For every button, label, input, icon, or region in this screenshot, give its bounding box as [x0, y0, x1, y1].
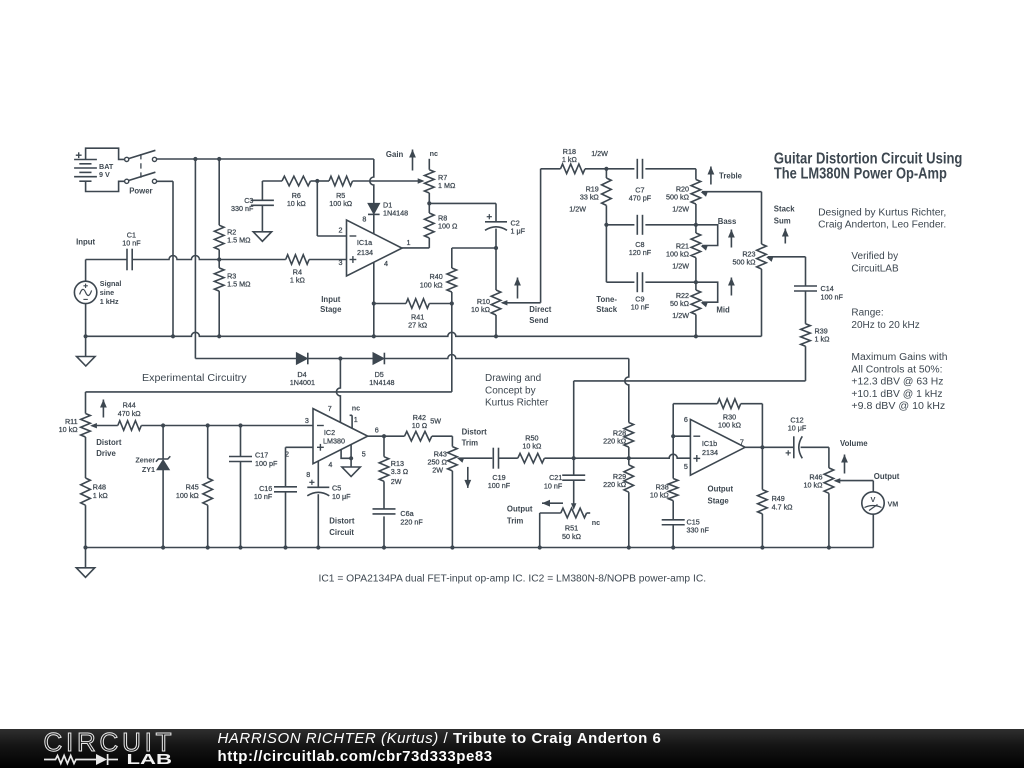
title Guitar Distortion Circuit Using The LM380N Power Op-Amp [774, 151, 963, 183]
svg-text:Input: Input [76, 238, 95, 247]
capacitor C3 330 nF [231, 181, 274, 232]
annotation Maximum Gains [851, 352, 947, 412]
svg-text:+10.1 dBV @ 1 kHz: +10.1 dBV @ 1 kHz [851, 389, 942, 400]
wire R39 bottom to output trim branch [574, 381, 806, 458]
wire C9 left branch [606, 225, 634, 282]
node C17 junction [238, 423, 242, 427]
svg-text:100 nF: 100 nF [821, 292, 844, 301]
capacitor C19 100 nF [488, 448, 518, 490]
potentiometer R11 10 kOhm Distort Drive [59, 414, 118, 479]
capacitor C16 10 nF on IC2 pin2 [254, 447, 313, 547]
svg-text:Range:: Range: [851, 308, 883, 319]
svg-text:500 kΩ: 500 kΩ [733, 257, 757, 266]
annotation Designed by [818, 207, 946, 230]
svg-text:Send: Send [529, 316, 548, 325]
resistor R19 33 kOhm 1/2W [569, 169, 611, 225]
svg-text:4: 4 [384, 259, 388, 268]
capacitor C2 1 uF polarized [485, 214, 526, 248]
capacitor C21 10 nF [544, 458, 585, 505]
capacitor C6a 220 nF [373, 509, 424, 548]
svg-text:7: 7 [740, 438, 744, 447]
svg-text:Output: Output [874, 472, 900, 481]
node C8 right junction [694, 223, 698, 227]
svg-text:50 kΩ: 50 kΩ [562, 532, 582, 541]
svg-text:1 kΩ: 1 kΩ [815, 335, 831, 344]
potentiometer R20 500 kOhm 1/2W Treble [666, 169, 761, 225]
svg-text:1N4148: 1N4148 [369, 378, 394, 387]
potentiometer R7 1 MOhm (nc top) [425, 149, 456, 203]
zener diode ZY1 [135, 426, 170, 548]
svg-text:4.7 kΩ: 4.7 kΩ [772, 502, 794, 511]
node R6/R5 junction [315, 179, 319, 183]
svg-text:Distort: Distort [462, 428, 488, 437]
resistor R29 220 kOhm [603, 458, 633, 547]
wire IC1b output pin 7 [745, 445, 794, 449]
svg-text:Gain: Gain [386, 150, 404, 159]
svg-text:100 kΩ: 100 kΩ [718, 420, 742, 429]
svg-text:8: 8 [362, 214, 366, 223]
svg-text:100 Ω: 100 Ω [438, 221, 458, 230]
svg-text:220 kΩ: 220 kΩ [603, 436, 627, 445]
wire distort drive top [86, 392, 452, 414]
svg-text:Maximum Gains with: Maximum Gains with [851, 352, 947, 363]
wire feedback to lower section [451, 304, 453, 392]
capacitor C17 100 pF [229, 426, 278, 548]
annotation Verified by CircuitLAB [851, 251, 899, 274]
node R40/R41 junction [450, 301, 454, 305]
resistor R40 100 kOhm [420, 268, 457, 304]
svg-text:sine: sine [100, 288, 114, 297]
wire D5 rail down to R28 (hop) [625, 359, 629, 423]
svg-text:Drawing and: Drawing and [485, 373, 541, 384]
svg-text:V: V [871, 495, 876, 504]
ground below C3 [253, 232, 271, 242]
svg-text:Verified by: Verified by [851, 251, 898, 262]
svg-text:1/2W: 1/2W [672, 311, 689, 320]
svg-text:VM: VM [888, 499, 899, 508]
wire inverting input IC1a pin 2 [317, 181, 346, 236]
svg-text:All Controls at 50%:: All Controls at 50%: [851, 364, 942, 375]
node R28/R29 junction [627, 456, 631, 460]
svg-text:Concept by: Concept by [485, 385, 536, 396]
resistor R45 100 kOhm [176, 426, 213, 548]
label Distort Circuit [329, 517, 355, 537]
switch SW Power (DPDT) [125, 150, 157, 195]
resistor R50 10 kOhm [518, 433, 691, 463]
annotation Drawing and Concept [485, 373, 549, 409]
wire IC1a output pin1 [402, 247, 429, 249]
svg-text:5W: 5W [430, 416, 441, 425]
node C2 bottom junction [494, 246, 498, 250]
wire direct send up to R18 [541, 169, 561, 303]
svg-text:Stack: Stack [774, 205, 795, 214]
label Experimental Circuitry [142, 373, 247, 384]
resistor R4 1 kOhm [286, 255, 347, 285]
wire IC1a pin4 to ground rail [372, 262, 376, 338]
svg-text:10 kΩ: 10 kΩ [59, 425, 79, 434]
svg-text:100 pF: 100 pF [255, 459, 278, 468]
wire R7/R8 junction to C2 [429, 203, 496, 221]
wire experimental rail left [195, 358, 296, 360]
svg-text:1 kΩ: 1 kΩ [290, 275, 306, 284]
ground symbol bottom rail [76, 548, 94, 578]
capacitor C1 10 nF [122, 231, 141, 271]
svg-text:5: 5 [684, 462, 688, 471]
svg-text:LM380: LM380 [323, 437, 345, 446]
wire C2 junction to R40 [452, 248, 496, 268]
diode D4 1N4001 [290, 353, 341, 387]
annotation IC note [319, 574, 707, 585]
resistor R5 100 kOhm [317, 176, 352, 208]
svg-text:470 kΩ: 470 kΩ [118, 409, 142, 418]
svg-text:Tone-: Tone- [596, 295, 617, 304]
resistor R8 100 Ohm [425, 203, 458, 248]
resistor R18 1 kOhm 1/2W [561, 147, 609, 173]
svg-text:Bass: Bass [718, 217, 737, 226]
svg-text:10 μF: 10 μF [332, 492, 351, 501]
wire IC2 pin7 supply [336, 359, 340, 423]
svg-text:100 kΩ: 100 kΩ [329, 199, 353, 208]
wire switched +9V down to experimental circuitry [194, 159, 196, 359]
wire input to C1 [86, 259, 127, 261]
wire bottom ground rail [86, 547, 874, 549]
wire IC2 ground pins [341, 445, 353, 468]
svg-text:1 MΩ: 1 MΩ [438, 181, 456, 190]
svg-text:Distort: Distort [329, 517, 355, 526]
resistor R49 4.7 kOhm [758, 447, 794, 547]
voltmeter VM [862, 481, 898, 548]
svg-text:100 kΩ: 100 kΩ [420, 280, 444, 289]
annotation Range [851, 308, 919, 331]
svg-text:Signal: Signal [100, 279, 122, 288]
capacitor C9 10 nF [631, 272, 696, 311]
svg-text:7: 7 [328, 404, 332, 413]
node R22 bottom on rail [694, 334, 698, 338]
node Input [76, 238, 95, 247]
node R18/R19/C7 junction [604, 167, 608, 171]
svg-text:Craig Anderton, Leo Fender.: Craig Anderton, Leo Fender. [818, 220, 946, 231]
wire C2 to R10 [495, 248, 497, 290]
svg-text:Designed by Kurtus Richter,: Designed by Kurtus Richter, [818, 207, 946, 218]
svg-text:10 kΩ: 10 kΩ [522, 441, 542, 450]
svg-text:1 kΩ: 1 kΩ [93, 491, 109, 500]
label Treble with up arrow [708, 167, 743, 185]
svg-text:1 μF: 1 μF [511, 227, 526, 236]
diode D1 1N4148 [368, 200, 408, 234]
svg-text:Treble: Treble [719, 172, 743, 181]
node C9 right junction [694, 280, 698, 284]
potentiometer R21 100 kOhm 1/2W Bass [666, 225, 718, 282]
svg-text:Output: Output [507, 505, 533, 514]
svg-text:2: 2 [285, 449, 289, 458]
svg-text:1 kHz: 1 kHz [100, 297, 119, 306]
diode D5 1N4148 [340, 353, 394, 387]
svg-text:Stack: Stack [596, 305, 617, 314]
resistor R42 10 Ohm 5W [405, 413, 453, 441]
label Distort Trim with down arrow [462, 428, 488, 488]
svg-text:220 nF: 220 nF [400, 517, 423, 526]
svg-text:Power: Power [129, 187, 152, 196]
svg-text:1N4001: 1N4001 [290, 378, 315, 387]
node R2/R3 junction [217, 257, 221, 261]
svg-text:330 nF: 330 nF [687, 526, 710, 535]
svg-text:nc: nc [430, 149, 438, 158]
svg-text:27 kΩ: 27 kΩ [408, 321, 428, 330]
svg-text:3: 3 [305, 416, 309, 425]
resistor R41 27 kOhm [374, 299, 452, 330]
svg-text:100 kΩ: 100 kΩ [666, 249, 690, 258]
svg-text:10 kΩ: 10 kΩ [650, 490, 670, 499]
svg-text:ZY1: ZY1 [142, 465, 155, 474]
svg-text:33 kΩ: 33 kΩ [580, 193, 600, 202]
capacitor C14 100 nF [794, 257, 843, 324]
potentiometer R22 50 kOhm 1/2W Mid [670, 282, 718, 336]
svg-text:Trim: Trim [462, 439, 479, 448]
svg-text:220 kΩ: 220 kΩ [603, 480, 627, 489]
svg-text:1.5 MΩ: 1.5 MΩ [227, 279, 251, 288]
svg-text:2W: 2W [432, 465, 443, 474]
resistor R3 1.5 MOhm [214, 260, 251, 337]
svg-text:Trim: Trim [507, 517, 524, 526]
svg-text:Input: Input [321, 295, 340, 304]
svg-text:1.5 MΩ: 1.5 MΩ [227, 235, 251, 244]
capacitor C5 10 uF on IC2 pin8 [307, 461, 351, 547]
resistor R30 100 kOhm feedback [673, 399, 762, 447]
label Output Trim with left arrow [507, 500, 563, 526]
ground below IC2 [342, 467, 360, 477]
wire C1 to R4 (hops) [132, 256, 286, 260]
wire +9V top rail [157, 158, 374, 160]
CircuitLab logo [30, 729, 220, 768]
resistor R48 1 kOhm [81, 478, 109, 548]
node bottom rail junctions [83, 545, 831, 549]
capacitor C12 10 uF polarized [786, 415, 829, 458]
resistor R6 10 kOhm [262, 176, 317, 208]
svg-text:5: 5 [362, 449, 366, 458]
svg-text:120 nF: 120 nF [629, 248, 652, 257]
svg-text:+9.8 dBV @ 10 kHz: +9.8 dBV @ 10 kHz [851, 401, 945, 412]
node IC1b pin6 junction [671, 434, 675, 438]
op-amp IC1b 2134 [684, 415, 745, 475]
svg-text:Direct: Direct [529, 305, 552, 314]
svg-text:10 Ω: 10 Ω [412, 421, 428, 430]
label Gain with up arrow [386, 150, 416, 171]
node R10 bottom on rail [494, 334, 498, 338]
svg-text:470 pF: 470 pF [629, 193, 652, 202]
svg-text:nc: nc [592, 518, 600, 527]
wire lower switch throw [157, 180, 173, 182]
svg-text:nc: nc [352, 403, 360, 412]
node R45 junction [206, 423, 210, 427]
wire +9V to D1 (hop over wiper wire) [370, 159, 374, 203]
svg-text:10 nF: 10 nF [122, 239, 141, 248]
svg-text:100 kΩ: 100 kΩ [176, 491, 200, 500]
logo resistor-diode glyph [44, 754, 118, 765]
svg-text:IC1b: IC1b [702, 439, 717, 448]
svg-text:Experimental Circuitry: Experimental Circuitry [142, 373, 247, 384]
op-amp IC1a 2134 [339, 214, 411, 276]
svg-text:1 kΩ: 1 kΩ [562, 155, 578, 164]
svg-text:10 nF: 10 nF [544, 481, 563, 490]
svg-text:2134: 2134 [357, 248, 373, 257]
wire IC2 output pin 6 [368, 434, 405, 438]
node R7/R8 junction [427, 201, 431, 205]
label Tone-Stack [596, 295, 617, 314]
capacitor C15 330 nF [662, 517, 710, 547]
svg-text:The LM380N Power Op-Amp: The LM380N Power Op-Amp [774, 166, 947, 183]
label Direct Send with up arrow [514, 278, 552, 325]
resistor R13 3.3 Ohm 2W [379, 436, 409, 509]
svg-text:Stage: Stage [708, 497, 730, 506]
svg-text:Drive: Drive [96, 449, 116, 458]
svg-text:10 μF: 10 μF [788, 424, 807, 433]
svg-text:10 kΩ: 10 kΩ [804, 481, 824, 490]
svg-text:Kurtus Richter: Kurtus Richter [485, 398, 549, 409]
svg-text:100 nF: 100 nF [488, 481, 511, 490]
svg-text:Zener: Zener [135, 456, 155, 465]
svg-text:1/2W: 1/2W [672, 204, 689, 213]
capacitor C8 120 nF [606, 215, 696, 257]
svg-text:9 V: 9 V [99, 170, 110, 179]
resistor R39 1 kOhm [801, 324, 830, 381]
ground symbol mid rail [77, 336, 95, 366]
node D4/D5 junction [338, 356, 342, 360]
svg-text:Output: Output [708, 485, 734, 494]
svg-text:2134: 2134 [702, 448, 718, 457]
node C8 left junction [604, 223, 608, 227]
label Input Stage [320, 295, 342, 314]
wire ground rail (mid) [86, 332, 762, 336]
node zener junction [161, 423, 165, 427]
svg-text:IC1 = OPA2134PA dual FET-input: IC1 = OPA2134PA dual FET-input op-amp IC… [319, 574, 707, 585]
battery BAT 9V [74, 148, 125, 191]
resistor R2 1.5 MOhm [214, 159, 251, 260]
svg-text:3.3 Ω: 3.3 Ω [391, 467, 409, 476]
svg-text:1N4148: 1N4148 [383, 209, 408, 218]
potentiometer R51 50 kOhm Output Trim [540, 503, 600, 547]
svg-text:1/2W: 1/2W [591, 149, 608, 158]
node junction top rail [193, 157, 221, 161]
resistor R28 220 kOhm [603, 423, 633, 459]
wire D5 to R28 (hop over feedback wire) [384, 355, 628, 359]
node output trim top junction [572, 456, 576, 460]
svg-text:+12.3 dBV @ 63 Hz: +12.3 dBV @ 63 Hz [851, 377, 943, 388]
svg-text:Circuit: Circuit [329, 528, 354, 537]
svg-text:Mid: Mid [716, 306, 730, 315]
label Distort Drive with up arrow [96, 400, 122, 459]
wire battery return vertical [172, 181, 174, 336]
svg-text:IC1a: IC1a [357, 238, 372, 247]
capacitor C7 470 pF [606, 159, 696, 203]
svg-text:6: 6 [684, 415, 688, 424]
svg-text:10 kΩ: 10 kΩ [471, 305, 491, 314]
svg-text:CircuitLAB: CircuitLAB [851, 263, 899, 274]
resistor R38 10 kOhm [650, 436, 678, 520]
potentiometer R46 10 kOhm Volume [804, 447, 874, 547]
svg-text:10 nF: 10 nF [254, 492, 273, 501]
wire IC1b pin 6 [673, 404, 690, 437]
svg-text:1/2W: 1/2W [672, 261, 689, 270]
label Stack Sum with up arrow [774, 205, 795, 244]
label Mid with up arrow [716, 278, 734, 315]
svg-text:1: 1 [407, 238, 411, 247]
svg-text:8: 8 [306, 470, 310, 479]
svg-text:Sum: Sum [774, 216, 791, 225]
svg-text:50 kΩ: 50 kΩ [670, 299, 690, 308]
svg-text:Distort: Distort [96, 438, 122, 447]
svg-text:Volume: Volume [840, 439, 868, 448]
svg-text:1/2W: 1/2W [569, 204, 586, 213]
label Output [874, 472, 900, 481]
wire R5 to R7 wiper [353, 178, 425, 183]
op-amp IC2 LM380 [285, 403, 379, 479]
node source ground junction [84, 334, 222, 338]
label Output Stage [708, 485, 734, 506]
svg-text:6: 6 [375, 426, 379, 435]
source SIG Signal sine 1 kHz [74, 260, 121, 337]
label Volume with up arrow [840, 439, 868, 473]
svg-text:10 nF: 10 nF [631, 302, 650, 311]
svg-text:LAB: LAB [127, 751, 173, 768]
label Bass with up arrow [718, 217, 737, 248]
potentiometer R23 500 kOhm Stack Sum [733, 192, 806, 337]
resistor R44 470 kOhm [118, 401, 313, 431]
svg-text:20Hz to 20 kHz: 20Hz to 20 kHz [851, 320, 919, 331]
svg-text:2: 2 [339, 226, 343, 235]
potentiometer R10 10 kOhm [471, 290, 541, 336]
potentiometer R43 250 Ohm 2W Distort Trim [428, 436, 493, 547]
svg-text:1: 1 [354, 415, 358, 424]
svg-text:500 kΩ: 500 kΩ [666, 193, 690, 202]
svg-text:Stage: Stage [320, 305, 342, 314]
svg-text:4: 4 [328, 460, 332, 469]
svg-text:10 kΩ: 10 kΩ [287, 199, 307, 208]
svg-text:2W: 2W [391, 477, 402, 486]
svg-text:330 nF: 330 nF [231, 204, 254, 213]
